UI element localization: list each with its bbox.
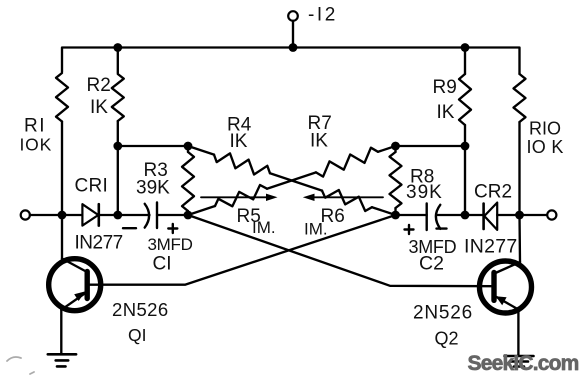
node R9 mid junction	[461, 142, 470, 151]
svg-text:39K: 39K	[136, 178, 170, 199]
resistor R3	[182, 152, 194, 211]
svg-text:IN277: IN277	[464, 235, 518, 257]
svg-text:-I2: -I2	[308, 4, 338, 25]
wire line B end	[188, 206, 215, 215]
svg-text:2N526: 2N526	[413, 303, 473, 324]
node R10 bottom junction	[515, 211, 524, 220]
resistor R10	[514, 74, 526, 122]
svg-text:3MFD: 3MFD	[148, 235, 193, 254]
resistor R1	[56, 73, 68, 122]
svg-text:IOK: IOK	[20, 135, 53, 155]
wire top rail	[62, 48, 520, 75]
svg-text:R2: R2	[87, 75, 111, 96]
svg-text:2N526: 2N526	[112, 299, 169, 320]
label C1 plus	[168, 224, 177, 233]
resistor R5	[215, 185, 267, 206]
wire R2 top	[117, 48, 119, 74]
wire -12 stub	[292, 21, 294, 48]
transistor Q2	[480, 261, 532, 313]
wire mid right horizontal	[396, 145, 466, 147]
label C1 minus	[123, 227, 136, 229]
wire CR2 to output	[497, 214, 547, 216]
node R2 top junction	[113, 43, 122, 52]
wire Q1 collector	[61, 215, 63, 259]
wire Q1 emitter	[60, 310, 62, 355]
svg-text:39K: 39K	[406, 182, 443, 203]
resistor R7	[316, 148, 378, 177]
wire Q2 collector	[518, 215, 521, 263]
wire R3 stubs	[187, 146, 189, 215]
resistor R2	[112, 74, 124, 121]
capacitor C2	[427, 204, 441, 231]
terminal input left	[21, 210, 30, 219]
wire mid left horizontal	[118, 145, 188, 147]
wire Q2 emitter	[517, 309, 519, 356]
svg-text:IM.: IM.	[252, 218, 276, 237]
wire CR1 to C1	[99, 214, 150, 216]
label C2 minus	[437, 227, 447, 229]
svg-text:C2: C2	[419, 253, 444, 275]
svg-text:RIO: RIO	[529, 119, 561, 139]
wire LB node to Q2 base (line C)	[188, 215, 493, 286]
scan artifact bottom-left	[7, 357, 34, 374]
ground Q2	[505, 356, 534, 367]
svg-text:IN277: IN277	[75, 233, 123, 254]
svg-text:IK: IK	[90, 97, 108, 118]
resistor R6	[322, 190, 372, 211]
resistor R8	[390, 152, 402, 208]
wire line A (LT node to RB node) segment 1	[188, 146, 214, 155]
wire R9 top	[464, 48, 466, 75]
node top rail junction	[289, 43, 298, 52]
svg-text:Q2: Q2	[435, 329, 459, 349]
svg-text:QI: QI	[128, 325, 146, 345]
diode CR2	[484, 203, 498, 230]
label C2 plus	[405, 225, 414, 234]
wire C1 to LB node	[157, 214, 188, 216]
node right bottom (Q2 base node)	[391, 211, 400, 220]
wire R2 bottom	[117, 121, 119, 215]
terminal -12 supply	[288, 11, 298, 21]
node left bottom (Q1 base node)	[184, 211, 193, 220]
resistor R9	[459, 74, 471, 125]
diode CR1	[82, 204, 98, 225]
wire R8 stubs	[394, 146, 396, 215]
capacitor C1	[145, 203, 157, 229]
arrow of variable resistor R6	[313, 196, 383, 198]
wire line B middle	[267, 172, 316, 188]
wire line A end	[372, 207, 396, 215]
wire RB node to Q1 base (line D)	[88, 215, 396, 285]
node R2 bottom junction	[113, 211, 122, 220]
svg-text:CI: CI	[153, 254, 172, 275]
wire C2 to CR2	[436, 214, 484, 216]
svg-text:SeekIC.com: SeekIC.com	[468, 352, 579, 375]
svg-text:CRI: CRI	[75, 176, 109, 197]
wire line A middle	[270, 173, 322, 190]
svg-text:IM.: IM.	[304, 220, 328, 239]
resistor R4	[214, 153, 270, 174]
node R9 bottom junction	[461, 211, 470, 220]
transistor Q1	[49, 259, 101, 311]
node R9 top junction	[461, 43, 470, 52]
svg-text:RI: RI	[24, 116, 46, 137]
ground Q1	[48, 354, 76, 366]
arrow of variable resistor R5	[201, 196, 269, 198]
svg-text:IO K: IO K	[527, 137, 564, 157]
terminal output right	[547, 210, 556, 219]
svg-text:IK: IK	[310, 131, 328, 152]
wire R1 bottom	[61, 122, 63, 216]
wire line B (RT node to LB node) segment 1	[378, 146, 396, 152]
node R1 bottom junction	[58, 211, 67, 220]
svg-text:IK: IK	[437, 102, 455, 123]
wire RB node to C2	[396, 214, 427, 216]
svg-text:CR2: CR2	[474, 181, 512, 202]
svg-text:IK: IK	[230, 131, 248, 152]
wire R10 bottom	[518, 122, 520, 215]
wire input to CR1	[30, 214, 83, 216]
wire R9 bottom	[464, 125, 466, 215]
node right top (Q2 coupling node)	[391, 142, 400, 151]
node R2 mid junction	[113, 142, 122, 151]
svg-text:R9: R9	[433, 77, 457, 98]
node left top (Q1 coupling node)	[184, 142, 193, 151]
